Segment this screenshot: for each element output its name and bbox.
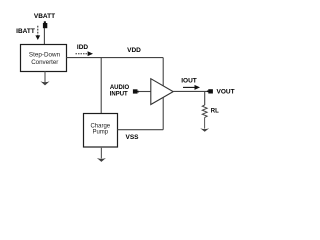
wire VSS rail [117, 129, 163, 131]
current arrow IDD [76, 51, 94, 56]
wire to load resistor [204, 91, 206, 105]
ground (charge pump) [97, 147, 106, 162]
resistor RL [202, 105, 207, 117]
wire VBATT to converter [43, 28, 45, 45]
svg-text:VOUT: VOUT [217, 89, 235, 96]
ground (step-down converter) [40, 72, 49, 86]
svg-text:Pump: Pump [92, 130, 108, 136]
svg-text:Converter: Converter [31, 59, 58, 66]
block U1 Step-Down Converter [21, 45, 67, 72]
svg-text:IBATT: IBATT [16, 28, 35, 35]
svg-text:Charge: Charge [90, 123, 110, 129]
current arrow IOUT [183, 85, 200, 90]
wire amplifier output to VOUT [173, 90, 207, 92]
wire VDD drop to charge pump [100, 58, 102, 114]
svg-text:IDD: IDD [77, 44, 89, 51]
wire VDD rail [66, 57, 163, 59]
op-amp U2 audio amplifier [151, 79, 173, 105]
svg-text:AUDIO: AUDIO [110, 85, 130, 91]
svg-text:VBATT: VBATT [34, 13, 55, 20]
wire resistor to ground [204, 117, 206, 128]
terminal AUDIO INPUT [133, 89, 139, 93]
terminal VBATT [43, 21, 47, 28]
svg-text:VSS: VSS [125, 134, 139, 141]
svg-text:Step-Down: Step-Down [29, 52, 61, 59]
terminal VOUT [207, 89, 213, 93]
current arrow IBATT (dashed) [35, 26, 40, 40]
svg-text:INPUT: INPUT [110, 92, 128, 98]
block U3 Charge Pump [84, 114, 118, 148]
svg-text:RL: RL [211, 108, 219, 114]
svg-text:VDD: VDD [127, 47, 141, 54]
wire audio input to amplifier [139, 91, 151, 93]
ground (load) [200, 128, 209, 132]
svg-text:IOUT: IOUT [181, 77, 197, 84]
label AUDIO INPUT [110, 85, 130, 97]
wire VDD/VSS vertical through amplifier [162, 58, 164, 130]
